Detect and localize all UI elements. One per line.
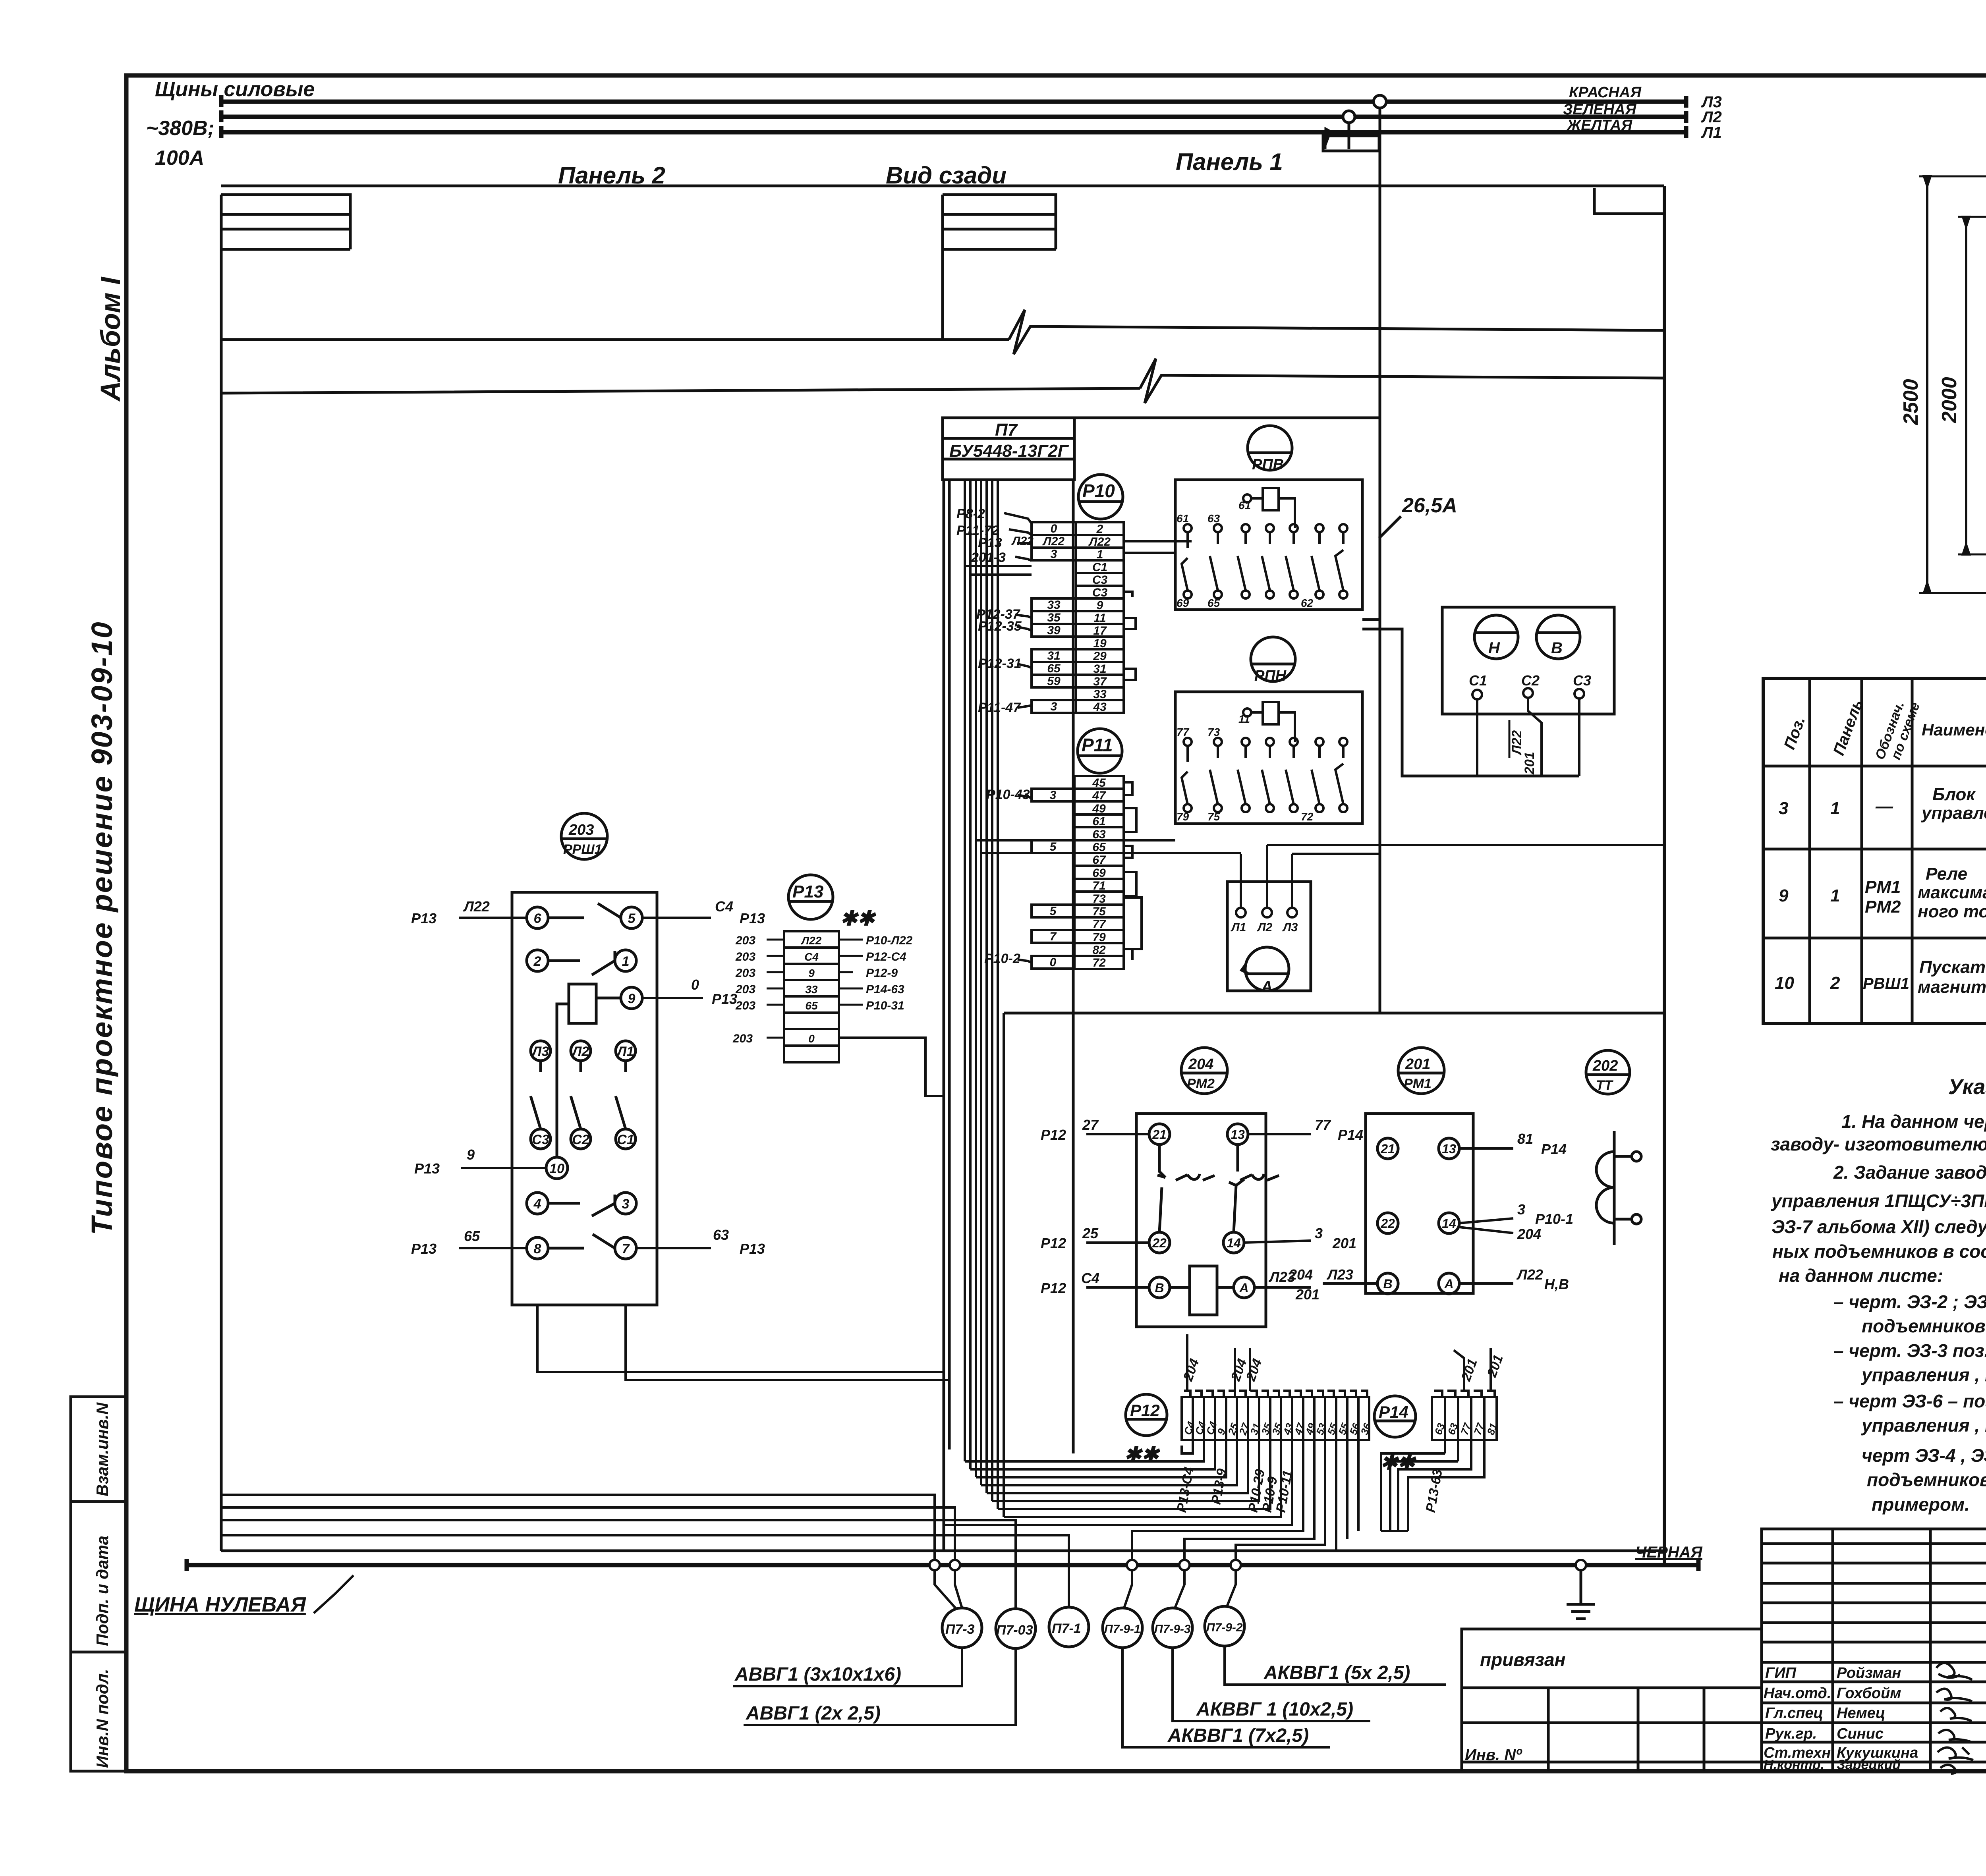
svg-text:Р12: Р12 [1041, 1127, 1066, 1143]
svg-text:Р12: Р12 [1041, 1280, 1066, 1296]
svg-text:69: 69 [1177, 597, 1189, 609]
circle designator РЛВ [1248, 426, 1292, 470]
svg-text:Р8-2: Р8-2 [956, 506, 985, 521]
Р10 terminal numbers right column [1088, 523, 1111, 714]
svg-text:Л3: Л3 [531, 1044, 549, 1059]
svg-text:11: 11 [1238, 713, 1250, 725]
svg-text:Н: Н [1488, 639, 1500, 657]
svg-text:Зарецкий: Зарецкий [1837, 1757, 1901, 1772]
terminal 9 [621, 987, 642, 1009]
svg-text:управления: управления [1921, 803, 1986, 823]
svg-text:203: 203 [735, 934, 755, 947]
svg-text:3: 3 [1051, 548, 1057, 561]
circle designator Р12 [1126, 1394, 1167, 1436]
svg-text:59: 59 [1047, 675, 1061, 688]
svg-text:63: 63 [1207, 512, 1220, 525]
svg-text:75: 75 [1092, 905, 1106, 918]
svg-text:204: 204 [1289, 1266, 1313, 1283]
svg-text:БУ5448-13Г2Г: БУ5448-13Г2Г [949, 441, 1069, 461]
svg-text:А: А [1261, 978, 1273, 996]
svg-text:65: 65 [805, 1000, 818, 1012]
contact 4-3 [548, 1195, 615, 1216]
wire С1 drop [1476, 699, 1478, 776]
svg-text:✱✱: ✱✱ [840, 907, 877, 930]
РМ2 terminal В [1149, 1277, 1170, 1298]
svg-text:~380В;: ~380В; [146, 117, 214, 140]
svg-text:Л2: Л2 [1257, 921, 1273, 934]
coil left wire to 10 [557, 1004, 569, 1157]
svg-text:ЩИНА НУЛЕВАЯ: ЩИНА НУЛЕВАЯ [134, 1593, 306, 1616]
svg-text:0: 0 [691, 977, 699, 993]
dim 2500 [1924, 176, 1930, 593]
svg-text:Р13: Р13 [411, 910, 437, 926]
svg-text:ЖЕЛТАЯ: ЖЕЛТАЯ [1566, 117, 1632, 134]
svg-text:С1: С1 [1092, 561, 1107, 574]
wire С3 drop [1578, 699, 1580, 776]
svg-text:77: 77 [1315, 1117, 1331, 1133]
relay РМ2 box [1136, 1114, 1266, 1327]
svg-text:✱✱: ✱✱ [1124, 1443, 1161, 1466]
Р12 strip drops to bus taps [1132, 1440, 1303, 1560]
Р12 strip numbers (rotated) [1181, 1420, 1373, 1437]
wire routing nest above zero bus [221, 1305, 1484, 1609]
wires: bus taps to cable circles [935, 1570, 1236, 1609]
ground symbol [1567, 1570, 1595, 1619]
Р14 strip drops [1381, 1440, 1445, 1531]
svg-text:31: 31 [1093, 662, 1106, 676]
svg-text:Р12-9: Р12-9 [866, 967, 898, 980]
svg-text:22: 22 [1152, 1236, 1167, 1250]
svg-text:Гл.спец: Гл.спец [1765, 1705, 1823, 1722]
terminal 4 [527, 1193, 548, 1214]
svg-text:ЭЗ-7 альбома XII) следует: ЭЗ-7 альбома XII) следует скорректироват… [1772, 1216, 1986, 1237]
РМ1 terminal В [1377, 1273, 1398, 1294]
terminal strip Р11 left boxes [1032, 789, 1074, 969]
circle designator Р14 [1374, 1396, 1416, 1437]
svg-text:4: 4 [533, 1197, 541, 1212]
svg-text:С4: С4 [804, 951, 819, 963]
РМ2 terminal А [1234, 1277, 1254, 1298]
svg-text:С2: С2 [572, 1132, 589, 1147]
svg-text:П7-1: П7-1 [1052, 1621, 1081, 1636]
svg-text:Р10-1: Р10-1 [1535, 1211, 1573, 1227]
svg-text:П7-9-1: П7-9-1 [1104, 1623, 1141, 1636]
svg-text:Р13: Р13 [411, 1241, 437, 1257]
svg-text:П7-9-3: П7-9-3 [1154, 1623, 1191, 1636]
svg-text:Л22: Л22 [1088, 535, 1111, 548]
svg-text:Щины силовые: Щины силовые [155, 78, 315, 101]
РРШ1 wire stubs and external labels [459, 918, 711, 1248]
svg-text:2: 2 [1096, 523, 1103, 536]
svg-text:Л2: Л2 [1701, 108, 1722, 126]
svg-text:Указания по привязке: Указания по привязке [1948, 1075, 1986, 1099]
svg-text:Рук.гр.: Рук.гр. [1765, 1725, 1817, 1742]
svg-text:203: 203 [732, 1032, 753, 1045]
ammeter А [1242, 947, 1289, 991]
svg-text:82: 82 [1092, 944, 1106, 957]
svg-text:25: 25 [1082, 1225, 1099, 1241]
svg-text:РМ2: РМ2 [1865, 897, 1901, 917]
svg-text:19: 19 [1093, 637, 1107, 650]
svg-text:С1: С1 [617, 1132, 634, 1147]
svg-text:26,5А: 26,5А [1402, 494, 1457, 517]
cable circle П7-3 [942, 1608, 982, 1648]
svg-text:14: 14 [1227, 1236, 1241, 1250]
terminal 5 [621, 907, 642, 928]
svg-text:35: 35 [1047, 611, 1061, 624]
svg-text:С3: С3 [1092, 573, 1108, 587]
РМ2 terminal 22 [1149, 1232, 1170, 1253]
svg-text:С2: С2 [1521, 672, 1540, 689]
svg-text:0: 0 [1051, 522, 1057, 535]
РМ1 terminal 13 [1439, 1138, 1459, 1159]
Р11 terminal numbers [1050, 776, 1106, 969]
data row lines [1763, 849, 1986, 938]
svg-text:Альбом I: Альбом I [95, 276, 126, 402]
rear-view left edge [220, 195, 223, 1551]
svg-text:3: 3 [1050, 789, 1057, 802]
terminal strip Р10 left boxes [1032, 522, 1076, 713]
svg-text:Р14: Р14 [1338, 1127, 1363, 1143]
svg-text:67: 67 [1092, 853, 1106, 867]
svg-text:Р12: Р12 [1041, 1235, 1066, 1251]
svg-text:Р10-2: Р10-2 [984, 951, 1020, 966]
wire: РПН to meters [1362, 629, 1579, 776]
svg-text:Р11-47: Р11-47 [978, 700, 1021, 715]
svg-text:9: 9 [467, 1146, 475, 1163]
svg-text:С3: С3 [532, 1132, 549, 1147]
meter Н [1474, 615, 1518, 659]
svg-text:77: 77 [1177, 726, 1190, 738]
Р10 external wire labels [956, 506, 1034, 715]
svg-text:45: 45 [1092, 776, 1106, 789]
svg-text:22: 22 [1380, 1216, 1395, 1231]
Р13 strip terminal numbers [801, 934, 822, 1045]
signature table [1762, 1529, 1986, 1771]
svg-text:С4: С4 [715, 898, 733, 915]
svg-text:Типовое проектное решение 9: Типовое проектное решение 903-09-10 [85, 621, 118, 1235]
svg-text:Л1: Л1 [616, 1044, 634, 1059]
horizontal rail 1 with break [221, 310, 1664, 354]
svg-text:0: 0 [1050, 956, 1057, 969]
svg-text:Блок: Блок [1932, 785, 1976, 804]
Р11 external wire labels [984, 787, 1030, 966]
svg-text:П7: П7 [995, 420, 1018, 440]
svg-text:ного тока: ного тока [1918, 902, 1986, 921]
svg-text:27: 27 [1082, 1117, 1099, 1133]
cable circle П7-9-2 [1205, 1606, 1244, 1646]
Р11 label leader wires [1018, 795, 1032, 963]
svg-text:65: 65 [1047, 662, 1061, 675]
svg-text:Р13: Р13 [978, 535, 1002, 550]
rear-view right edge [1663, 186, 1666, 1565]
svg-text:подъемников исправить в со: подъемников исправить в соответствии с д… [1862, 1316, 1986, 1336]
svg-text:Ройзман: Ройзман [1837, 1665, 1901, 1681]
svg-text:11: 11 [1093, 612, 1106, 625]
svg-text:1: 1 [1830, 886, 1840, 905]
node: feeder tap on bus L3 [1374, 95, 1386, 108]
svg-text:С3: С3 [1573, 672, 1591, 689]
terminal strip Р13 [784, 931, 839, 1062]
svg-text:Л22: Л22 [463, 898, 490, 915]
circle designator 202 ТТ [1586, 1050, 1630, 1094]
svg-text:– черт. ЭЗ-3 поз. 6 - выче: – черт. ЭЗ-3 поз. 6 - вычеркнуть , поз. … [1833, 1340, 1986, 1361]
svg-text:201: 201 [1295, 1286, 1319, 1303]
svg-text:Панель 1: Панель 1 [1176, 149, 1283, 175]
svg-text:37: 37 [1093, 675, 1107, 688]
svg-text:Л22: Л22 [1516, 1266, 1543, 1283]
svg-text:Взам.инв.N: Взам.инв.N [93, 1402, 112, 1496]
svg-text:9: 9 [808, 967, 815, 979]
svg-text:100А: 100А [155, 147, 204, 170]
wire: panel2 run to П7-1 [221, 1535, 1069, 1607]
svg-text:201-3: 201-3 [971, 550, 1006, 565]
П7 enclosure top line [1074, 417, 1379, 419]
svg-text:ГИП: ГИП [1765, 1665, 1797, 1681]
svg-text:201: 201 [1332, 1235, 1356, 1251]
svg-text:Л2: Л2 [571, 1044, 589, 1059]
svg-text:РПН: РПН [1254, 668, 1287, 684]
relay РЛВ contact box [1175, 480, 1362, 610]
svg-text:1: 1 [622, 954, 630, 969]
Р10 terminal numbers left column [1042, 522, 1064, 713]
contactor РВШ1 box [512, 892, 657, 1305]
РМ2 contact 13-14 [1229, 1145, 1279, 1232]
panel2 vent box [221, 195, 350, 340]
signature squiggles [1936, 1663, 1973, 1774]
relay РПН contact box [1175, 692, 1362, 824]
svg-text:РРШ1: РРШ1 [563, 842, 602, 857]
svg-text:Р12-31: Р12-31 [978, 656, 1022, 671]
terminal strip Р10 right column [1076, 522, 1124, 713]
svg-text:62: 62 [1301, 597, 1314, 609]
svg-text:Наименование: Наименование [1922, 720, 1986, 739]
table row 1: блок управления [1779, 785, 1986, 824]
meter В [1536, 615, 1580, 659]
svg-text:9: 9 [1779, 886, 1789, 905]
wire: ammeter circuit to right border [1267, 844, 1664, 846]
svg-text:Реле: Реле [1926, 864, 1967, 884]
svg-text:примером.: примером. [1872, 1494, 1970, 1515]
terminal strip Р14 [1432, 1391, 1497, 1440]
svg-text:Р10-31: Р10-31 [866, 999, 904, 1012]
meters terminals С1 С2 С3 [1469, 672, 1591, 689]
svg-text:РМ1: РМ1 [1865, 877, 1901, 897]
svg-text:П7-3: П7-3 [945, 1622, 975, 1637]
wire: main feeder drop x=3472 [1379, 108, 1381, 1013]
wire: РЛВ row feeds from Р10 strip [1124, 541, 1192, 553]
svg-text:72: 72 [1092, 956, 1106, 969]
wire: РПН feed from bundle [976, 839, 1175, 841]
meters panel box Н В [1442, 607, 1614, 714]
svg-text:Р14-63: Р14-63 [866, 983, 904, 996]
svg-text:ТТ: ТТ [1596, 1078, 1614, 1093]
Р13 strip left stubs 203 [767, 940, 784, 1038]
svg-text:Л1: Л1 [1701, 124, 1722, 141]
svg-text:КРАСНАЯ: КРАСНАЯ [1569, 84, 1642, 101]
svg-text:АКВВГ 1 (10х2,5): АКВВГ 1 (10х2,5) [1196, 1699, 1353, 1720]
П7 rail right [1072, 480, 1075, 1453]
svg-text:Синис: Синис [1837, 1725, 1884, 1742]
РМ1 terminal 21 [1377, 1138, 1398, 1159]
svg-text:С3: С3 [1092, 586, 1108, 599]
bus L2 [221, 110, 1686, 123]
РЛВ contacts [1184, 524, 1192, 532]
РМ2 contact 21-22 [1157, 1145, 1215, 1232]
Р12 strip top wire labels 204 [1180, 1357, 1265, 1383]
bus L3 [221, 95, 1686, 108]
svg-text:Р13: Р13 [712, 991, 737, 1007]
svg-text:79: 79 [1092, 931, 1106, 944]
current transformer ТТ symbol [1596, 1131, 1641, 1245]
svg-text:Р12-35: Р12-35 [978, 619, 1022, 634]
svg-text:6: 6 [534, 911, 542, 926]
svg-text:Л1: Л1 [1231, 921, 1246, 934]
ammeter terminal leads [1241, 845, 1292, 908]
svg-text:Инв.N подл.: Инв.N подл. [93, 1669, 112, 1768]
svg-text:61: 61 [1177, 512, 1189, 525]
wire: РРШ1 to П7 rail a [537, 1305, 944, 1372]
wire: feeder from L2 down into fuse box [1348, 123, 1350, 149]
svg-text:П7-03: П7-03 [996, 1623, 1033, 1638]
svg-text:2500: 2500 [1899, 379, 1922, 425]
circle designator 201 РМ1 [1398, 1048, 1444, 1094]
svg-text:В: В [1383, 1277, 1392, 1291]
svg-text:39: 39 [1047, 624, 1061, 637]
svg-text:В: В [1551, 639, 1563, 657]
РПН contact labels [1177, 713, 1314, 823]
svg-text:65: 65 [1207, 597, 1220, 609]
svg-text:7: 7 [1050, 930, 1057, 943]
bundle bends to Р12 strip [965, 1440, 1204, 1461]
svg-text:3: 3 [1051, 700, 1057, 713]
svg-text:3: 3 [1779, 799, 1788, 818]
svg-text:максималь-: максималь- [1918, 883, 1986, 902]
svg-text:заводу- изготовителю для од: заводу- изготовителю для одного скреперн… [1771, 1134, 1986, 1154]
terminal 10 [546, 1157, 568, 1179]
svg-text:Л22: Л22 [801, 934, 822, 947]
circle designator Р11 [1078, 729, 1122, 773]
svg-text:47: 47 [1092, 789, 1106, 802]
svg-text:71: 71 [1092, 879, 1105, 892]
svg-text:Р12: Р12 [1130, 1401, 1160, 1420]
node: bus junction circles [929, 1560, 1586, 1570]
svg-text:Подп. и дата: Подп. и дата [93, 1536, 112, 1646]
header rows [1763, 765, 1986, 768]
svg-text:81: 81 [1517, 1131, 1533, 1147]
svg-text:7: 7 [622, 1241, 630, 1256]
svg-text:10: 10 [1775, 973, 1794, 993]
svg-text:Р14: Р14 [1541, 1141, 1567, 1157]
РМ1 external labels and stubs [1323, 1148, 1513, 1283]
svg-text:управления 1ПЩСУ÷3ПЩСУ (ч: управления 1ПЩСУ÷3ПЩСУ (черт. ЭЗ-2 , ЭЗ-… [1771, 1191, 1986, 1211]
РМ1 terminal 14 [1439, 1213, 1459, 1233]
svg-text:ных подъемников в соответст: ных подъемников в соответствии с примеро… [1772, 1241, 1986, 1262]
svg-text:73: 73 [1092, 892, 1106, 905]
svg-text:1: 1 [1097, 548, 1103, 561]
РРШ1 terminal numbers [531, 911, 636, 1256]
rear-view top edge line [221, 185, 1664, 187]
wire bundle П7 verticals [965, 481, 1032, 1517]
cable circle П7-9-1 [1103, 1608, 1142, 1648]
Р11 strip right bracket hooks [1124, 782, 1142, 960]
svg-text:204: 204 [1517, 1226, 1541, 1242]
svg-text:203: 203 [735, 983, 755, 996]
wire: hook tap on bus L1 [1325, 129, 1331, 149]
svg-text:2. Задание заводу- изготови: 2. Задание заводу- изготовителю на щиты … [1833, 1162, 1986, 1183]
Р14 strip numbers [1432, 1421, 1499, 1436]
svg-text:13: 13 [1442, 1142, 1456, 1156]
svg-text:65: 65 [464, 1228, 480, 1244]
svg-text:75: 75 [1207, 811, 1220, 823]
svg-text:61: 61 [1238, 499, 1251, 511]
svg-text:3: 3 [1517, 1201, 1525, 1218]
П7 unit label box [943, 418, 1379, 480]
terminal 8 [527, 1237, 548, 1259]
Р14 strip top wire labels 201 [1458, 1353, 1506, 1383]
wires: Р14 strip tops up [1454, 1348, 1491, 1391]
svg-text:Гохбойм: Гохбойм [1837, 1685, 1901, 1702]
svg-text:69: 69 [1092, 867, 1106, 880]
svg-text:14: 14 [1442, 1216, 1456, 1231]
svg-text:ЧЕРНАЯ: ЧЕРНАЯ [1635, 1544, 1702, 1561]
svg-text:5: 5 [628, 911, 636, 926]
РМ1 terminal 22 [1377, 1213, 1398, 1233]
bottom section enclosure [1004, 1012, 1664, 1015]
signature rows [1764, 1665, 1918, 1772]
circle designator 203 РРШ1 [561, 813, 607, 859]
circle designator 204 РМ2 [1181, 1048, 1227, 1094]
svg-text:АВВГ1 (3х10х1х6): АВВГ1 (3х10х1х6) [734, 1664, 901, 1685]
wire: top feeders to ammeter row [981, 853, 1379, 854]
terminal 2 [527, 950, 548, 971]
svg-text:21: 21 [1380, 1142, 1395, 1156]
svg-text:43: 43 [1093, 701, 1107, 714]
ammeter box [1227, 882, 1311, 991]
Р10 strip right bracket hooks [1124, 592, 1136, 680]
svg-text:79: 79 [1177, 811, 1189, 823]
svg-text:3: 3 [622, 1197, 630, 1212]
terminal 6 [527, 907, 548, 928]
svg-text:Н.контр.: Н.контр. [1764, 1757, 1824, 1772]
svg-text:Инв. Nº: Инв. Nº [1465, 1746, 1522, 1764]
cable circle П7-1 [1049, 1607, 1089, 1647]
wire: panel2 run to П7-3 core b [221, 1507, 955, 1560]
svg-text:3: 3 [1315, 1225, 1323, 1241]
Р10 leader wires from labels [1004, 513, 1032, 708]
svg-text:2: 2 [533, 954, 541, 969]
dim 2000 [1963, 217, 1969, 554]
svg-text:– черт ЭЗ-6 – поз.9 - выче: – черт ЭЗ-6 – поз.9 - вычеркнуть , поз 3… [1833, 1391, 1986, 1411]
ammeter terminal labels Л1 Л2 Л3 [1231, 921, 1298, 934]
svg-text:А: А [1239, 1281, 1248, 1295]
svg-text:73: 73 [1207, 726, 1220, 738]
contact 6-5 [548, 903, 621, 918]
привязан box [1462, 1629, 1762, 1688]
terminal strip Р12 [1182, 1391, 1369, 1440]
svg-text:В: В [1155, 1281, 1164, 1295]
coil РВШ1 [569, 984, 596, 1023]
wire С2 drop [1528, 698, 1542, 776]
svg-text:72: 72 [1301, 811, 1314, 823]
svg-text:9: 9 [628, 991, 636, 1006]
svg-text:201: 201 [1522, 752, 1537, 775]
svg-text:5: 5 [1050, 905, 1057, 918]
РМ2 terminal 13 [1227, 1124, 1248, 1145]
svg-text:магнитный: магнитный [1918, 977, 1986, 997]
svg-text:– черт. ЭЗ-2 ; ЭЗ-5 - общие: – черт. ЭЗ-2 ; ЭЗ-5 - общие виды щитов в… [1833, 1291, 1986, 1312]
wires: Р12 strip tops up [1187, 1334, 1250, 1391]
